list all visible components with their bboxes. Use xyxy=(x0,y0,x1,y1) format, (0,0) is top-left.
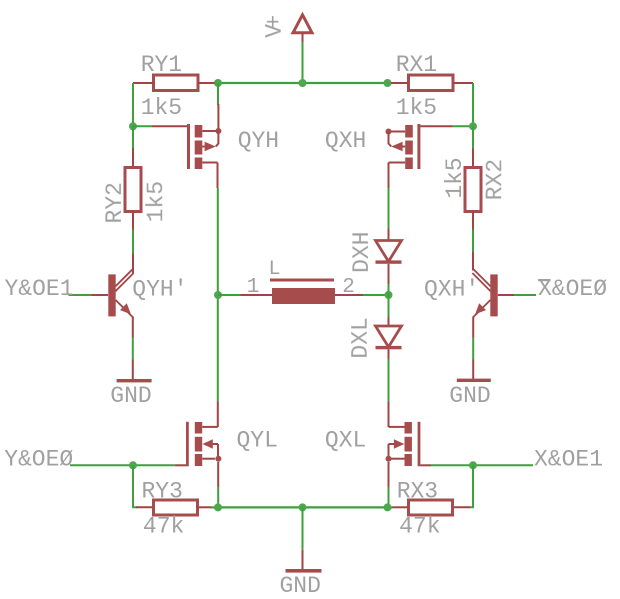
svg-text:QYL: QYL xyxy=(237,427,278,453)
pin QYH' base xyxy=(92,294,109,296)
pin QYH' collector xyxy=(132,254,134,271)
wire X&OE0 xyxy=(514,294,536,296)
pin DXH anode xyxy=(388,229,390,241)
svg-text:QYH: QYH xyxy=(238,128,279,154)
svg-text:1: 1 xyxy=(247,276,260,299)
pin QXH gate xyxy=(420,125,452,127)
pin QYL drain up xyxy=(217,402,219,428)
svg-text:DXH: DXH xyxy=(349,231,375,272)
svg-text:L: L xyxy=(269,258,281,281)
resistor RX1 xyxy=(391,75,473,91)
node bottom rail left xyxy=(214,503,222,511)
ground left xyxy=(117,379,152,382)
wire inductor left xyxy=(218,294,241,296)
inductor L xyxy=(270,280,335,304)
svg-text:Y&OE1: Y&OE1 xyxy=(5,276,74,302)
pin gnd center xyxy=(302,550,304,570)
svg-text:RX2: RX2 xyxy=(482,159,508,200)
wire bottom rail xyxy=(211,506,393,508)
wire QYH drain from rail xyxy=(217,83,219,105)
pin DXL anode xyxy=(388,349,390,359)
pin inductor 2 xyxy=(335,294,363,296)
diode DXL xyxy=(376,326,402,349)
wire right junction to RX2 xyxy=(472,126,474,148)
wire RX2 to QXH' collector xyxy=(472,230,474,253)
wire X&OE1 xyxy=(431,464,533,466)
pin inductor 1 xyxy=(241,294,273,296)
svg-text:RX3: RX3 xyxy=(397,478,438,504)
pin DXH cathode xyxy=(388,264,390,284)
pin QYL gate xyxy=(175,464,186,466)
wire node to DXL xyxy=(388,295,390,317)
wire right gate elbow down xyxy=(470,465,473,507)
node top rail right junction xyxy=(384,79,392,87)
power symbol V+ xyxy=(293,15,312,42)
pin RY2 top xyxy=(132,148,134,168)
wire QXH source to DXH xyxy=(388,188,390,229)
wire RY1 left drop xyxy=(132,83,134,126)
pin RX2 top xyxy=(472,149,474,168)
pin QYH' emitter xyxy=(132,317,134,338)
svg-text:+: + xyxy=(262,15,288,29)
svg-text:QXL: QXL xyxy=(325,427,366,453)
pin RX3 right xyxy=(453,506,471,508)
diode DXH xyxy=(376,241,402,264)
svg-text:RX1: RX1 xyxy=(396,52,437,78)
svg-text:47k: 47k xyxy=(143,514,184,540)
pin QXH' emitter xyxy=(472,317,474,338)
wire RY2 to QYH' collector xyxy=(132,230,134,254)
node left gate junction xyxy=(129,122,137,130)
transistor QXL xyxy=(386,422,421,467)
node X&OE1 junction xyxy=(469,461,477,469)
svg-text:RY1: RY1 xyxy=(141,52,182,78)
wire Y&OE0 xyxy=(70,464,175,466)
node diode junction xyxy=(385,291,393,299)
svg-text:DXL: DXL xyxy=(348,317,374,358)
wire DXL to QXL drain xyxy=(388,359,390,402)
svg-text:RY2: RY2 xyxy=(102,182,128,223)
wire Y&OE1 xyxy=(69,294,92,296)
node right gate junction xyxy=(469,122,477,130)
node top rail left junction xyxy=(214,79,222,87)
wire QXH' emitter to gnd xyxy=(472,338,474,360)
pin RX2 bottom xyxy=(472,212,474,230)
pin QXL drain xyxy=(388,402,390,428)
wire RX1 right drop xyxy=(472,83,474,126)
svg-text:1k5: 1k5 xyxy=(143,181,169,222)
node Y&OE0 junction xyxy=(129,461,137,469)
pin QYH drain xyxy=(217,104,219,131)
transistor QXH xyxy=(386,124,421,188)
svg-text:GND: GND xyxy=(110,383,151,409)
wire QYH' emitter to gnd xyxy=(132,338,134,360)
svg-text:RY3: RY3 xyxy=(142,478,183,504)
pin QXH' base xyxy=(498,294,514,296)
wire left gate elbow down xyxy=(133,465,137,507)
transistor QYH xyxy=(187,124,221,188)
svg-text:Y&OEØ: Y&OEØ xyxy=(4,447,73,473)
resistor RY1 xyxy=(133,75,215,91)
wire left junction to RY2 xyxy=(132,126,134,148)
wire right gate run xyxy=(453,125,474,127)
transistor QXH' xyxy=(472,269,497,317)
wire center gnd drop xyxy=(302,507,304,549)
pin RY2 bottom xyxy=(132,212,134,230)
svg-text:GND: GND xyxy=(280,573,321,599)
pin QXL gate xyxy=(420,464,431,466)
svg-text:1k5: 1k5 xyxy=(141,95,182,121)
wire left drain column xyxy=(217,188,219,402)
svg-text:GND: GND xyxy=(449,383,490,409)
wire QYL source to rail xyxy=(217,487,219,506)
transistor QYL xyxy=(186,422,221,467)
pin DXL cathode xyxy=(388,317,390,326)
wire V+ to top rail xyxy=(302,42,304,83)
ground center xyxy=(286,569,322,573)
pin gnd left xyxy=(132,360,134,380)
resistor RY2 xyxy=(125,168,141,212)
pin gnd right xyxy=(472,360,474,380)
wire inductor right xyxy=(363,294,389,296)
node bottom rail center xyxy=(299,503,307,511)
wire top rail xyxy=(214,82,391,84)
resistor RX2 xyxy=(465,168,481,212)
wire QXL source to rail xyxy=(388,487,390,506)
resistor RY3 xyxy=(154,500,212,515)
svg-text:QXH: QXH xyxy=(325,128,366,154)
node top rail / V+ junction xyxy=(299,79,307,87)
node bottom rail right xyxy=(384,503,392,511)
pin QXH' collector xyxy=(472,252,474,271)
transistor QYH' xyxy=(108,269,133,317)
pin QYH gate xyxy=(152,125,188,127)
svg-text:QXH': QXH' xyxy=(424,276,479,302)
svg-text:47k: 47k xyxy=(399,514,440,540)
svg-text:X&OE1: X&OE1 xyxy=(534,447,603,473)
wire DXH to node xyxy=(388,284,390,295)
svg-text:QYH': QYH' xyxy=(132,276,187,302)
label X&OE0 with overline xyxy=(538,276,607,302)
svg-text:1k5: 1k5 xyxy=(396,95,437,121)
ground right xyxy=(457,379,491,382)
node inductor left junction xyxy=(214,291,222,299)
pin QXL source xyxy=(388,462,390,487)
svg-text:1k5: 1k5 xyxy=(442,157,468,198)
pin QYL source xyxy=(217,462,219,487)
wire left gate run xyxy=(133,125,152,127)
pin RY3 left xyxy=(136,506,154,508)
resistor RX3 xyxy=(393,500,453,515)
